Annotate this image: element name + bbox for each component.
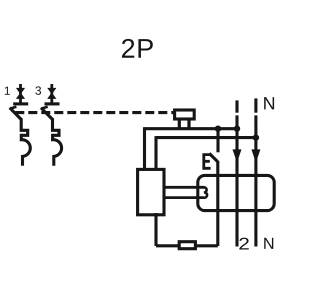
pole 1 contact blade bbox=[10, 108, 22, 120]
pole 2 trip unit (hook + magnetic arc) bbox=[53, 118, 62, 166]
pole 1 trip unit (hook + magnetic arc) bbox=[21, 118, 30, 166]
wire 2 bbox=[156, 136, 256, 139]
wire down B bbox=[154, 136, 157, 170]
title 2P bbox=[122, 39, 153, 58]
supply line 2 lower segment bbox=[235, 115, 238, 246]
test resistor bbox=[179, 242, 195, 249]
label N bottom bbox=[264, 238, 273, 249]
terminal box leg left bbox=[178, 119, 181, 130]
bottom wire bbox=[156, 244, 218, 247]
pole 2 label bbox=[35, 86, 41, 95]
junction dot test tap on wire 1 bbox=[215, 126, 221, 132]
terminal box leg right bbox=[187, 119, 190, 130]
junction dot wire 2 / line N bbox=[253, 134, 259, 140]
wire down A bbox=[143, 127, 146, 170]
winding bumps bbox=[204, 187, 207, 197]
wire 1 bbox=[145, 127, 238, 130]
test button bracket bbox=[204, 155, 211, 169]
pole 2 contact blade bbox=[41, 108, 53, 120]
arrow on line N bbox=[251, 149, 260, 162]
pole 1 label bbox=[5, 87, 10, 95]
label N top bbox=[264, 97, 274, 109]
relay bottom leg bbox=[154, 213, 157, 246]
pole 2 breaker tick bbox=[41, 107, 48, 109]
pole 2 terminal clamp bbox=[45, 84, 60, 104]
secondary winding lead lower bbox=[164, 196, 204, 199]
label 2 bottom bbox=[239, 238, 248, 250]
test wire lower bbox=[216, 161, 219, 246]
pole 1 breaker tick bbox=[10, 107, 17, 109]
test blade bbox=[209, 153, 217, 161]
relay / trip unit rectangle bbox=[138, 169, 164, 214]
toroid core capsule bbox=[198, 175, 274, 210]
supply line N lower segment bbox=[254, 115, 257, 246]
supply line N upper segment bbox=[254, 98, 257, 112]
arrow on line 2 bbox=[233, 149, 242, 162]
secondary winding lead upper bbox=[164, 186, 204, 189]
pole 1 terminal clamp bbox=[13, 84, 28, 104]
supply line 2 upper segment bbox=[235, 100, 238, 112]
junction dot wire 1 / line 2 bbox=[234, 126, 240, 132]
terminal box bbox=[175, 110, 195, 119]
test wire upper bbox=[216, 129, 219, 152]
linkage dashed line bbox=[15, 111, 173, 114]
